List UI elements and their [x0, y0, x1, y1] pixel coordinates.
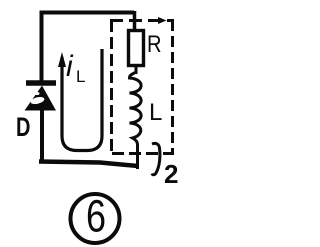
svg-text:L: L: [149, 99, 162, 126]
diode white speck: [30, 96, 45, 106]
arrowhead of iL: [58, 52, 66, 67]
arrow on top dashed edge: [158, 17, 167, 24]
mesh current loop iL (U path): [62, 49, 102, 151]
label D: [16, 112, 30, 143]
wire right vertical into resistor: [133, 11, 137, 31]
dashed box bottom edge: [112, 152, 174, 155]
inductor L coil: [130, 72, 142, 169]
wire below diode: [40, 109, 44, 163]
diode D triangle: [25, 86, 57, 111]
circled figure number 6: [71, 194, 120, 243]
wire resistor to inductor: [135, 65, 138, 74]
wire top horizontal: [40, 11, 134, 15]
svg-text:D: D: [16, 112, 30, 143]
wire bottom horizontal: [39, 162, 138, 167]
label R: [147, 30, 162, 57]
svg-text:L: L: [76, 67, 85, 86]
resistor R body: [129, 31, 144, 66]
svg-text:2: 2: [164, 159, 178, 189]
dashed box right edge: [171, 20, 174, 152]
label j2: [152, 143, 160, 174]
svg-text:6: 6: [86, 191, 106, 242]
dashed box top edge: [110, 19, 174, 22]
diode D cathode bar: [26, 80, 56, 86]
dashed box left edge: [110, 20, 113, 154]
svg-text:R: R: [147, 30, 162, 57]
wire left vertical upper (to diode cathode): [40, 11, 44, 83]
diode white speck 2: [34, 92, 39, 95]
